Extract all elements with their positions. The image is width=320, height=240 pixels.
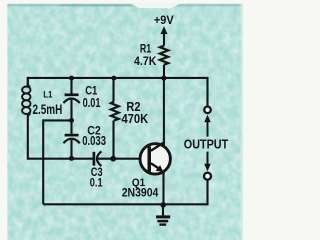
- lower output terminal: [204, 173, 211, 180]
- wire: R1 to top rail: [163, 65, 165, 78]
- wire: R2 to mid rail: [112, 121, 114, 159]
- resistor R2 (zigzag): [111, 78, 119, 159]
- wire: tap from C1/C2 junction left then down to bottom rail (crosses mid rail, no dot): [43, 120, 71, 204]
- node: R2 top junction: [111, 76, 116, 81]
- C3 straight left plate: [93, 152, 96, 166]
- wire: emitter from Q1 down to bottom rail: [162, 172, 164, 205]
- svg-text:2.5mH: 2.5mH: [33, 101, 63, 117]
- node: R2 bottom junction: [110, 156, 116, 162]
- svg-text:0.01: 0.01: [83, 95, 101, 110]
- wire: C1 bottom to junction: [70, 100, 72, 121]
- C1 top plate: [65, 93, 79, 96]
- page background (scanned page, aqua halftone panel with white margins): [0, 0, 243, 240]
- wire: left side down from L1 then right along mid rail to C3 left plate: [28, 114, 93, 159]
- wire: right drop from top rail to upper output terminal: [206, 77, 208, 107]
- svg-text:0.033: 0.033: [82, 134, 106, 148]
- C1 curved bottom plate: [63, 99, 79, 104]
- svg-text:L1: L1: [43, 90, 52, 100]
- C3 curved right plate: [97, 151, 102, 166]
- node: R1 bottom / collector junction: [161, 76, 166, 81]
- +9V supply arrow: [161, 26, 168, 45]
- capacitor C3 (in series in mid rail): [94, 151, 148, 166]
- capacitor C2: [63, 120, 79, 159]
- inductor L1 (coil, loops bulging left): [22, 77, 30, 116]
- resistor R1 (zigzag): [160, 46, 168, 78]
- node: C1/C2 tap junction: [69, 118, 74, 123]
- svg-text:OUTPUT: OUTPUT: [184, 137, 229, 152]
- capacitor C1: [63, 78, 79, 121]
- node: emitter / ground junction: [160, 202, 166, 208]
- wire: junction to C2 top plate: [70, 120, 72, 133]
- svg-text:4.7K: 4.7K: [134, 54, 156, 68]
- output up arrow: [204, 115, 211, 137]
- output down arrow: [204, 152, 211, 172]
- wire: left drop from top rail into L1: [27, 77, 29, 87]
- svg-text:0.1: 0.1: [90, 175, 103, 189]
- C2 top plate: [65, 134, 79, 137]
- wire: C3 right plate to base rail: [98, 158, 148, 160]
- wire: top rail (V+ collector rail): [28, 77, 208, 79]
- upper output terminal: [204, 107, 211, 114]
- wire: top rail to C1 top plate: [70, 78, 72, 94]
- ground: [156, 205, 170, 225]
- wire: top rail to R2: [112, 78, 114, 102]
- wire: bottom rail (ground rail) up to lower output terminal: [43, 180, 207, 204]
- svg-text:+9V: +9V: [154, 13, 174, 27]
- transistor Q1 2N3904 (NPN): [140, 143, 170, 174]
- svg-text:470K: 470K: [122, 111, 149, 126]
- svg-text:2N3904: 2N3904: [122, 187, 159, 200]
- node: C1 top junction: [69, 76, 74, 81]
- node: C2 bottom junction: [69, 156, 74, 161]
- wire: collector drop from top rail to Q1: [163, 78, 165, 146]
- C2 curved bottom plate: [63, 139, 79, 144]
- wire: C2 bottom to mid rail: [70, 140, 72, 160]
